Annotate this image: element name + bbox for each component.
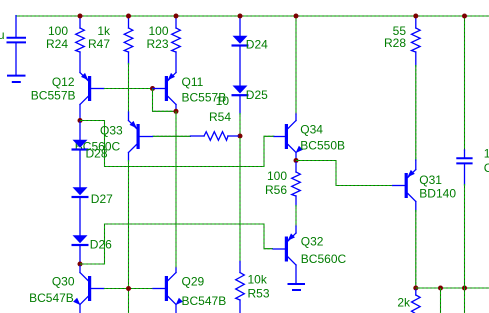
svg-text:D26: D26 <box>90 237 112 251</box>
svg-text:R23: R23 <box>146 37 168 51</box>
diode D28 anode lead <box>79 122 81 140</box>
resistor R28 top lead <box>415 18 417 29</box>
Q33 collector lead <box>128 153 130 162</box>
svg-text:R53: R53 <box>248 287 270 301</box>
transistor Q34 BC550B (NPN) <box>274 121 303 154</box>
svg-text:R28: R28 <box>384 36 406 50</box>
junction top rail rail/C3 <box>462 14 467 19</box>
svg-text:R24: R24 <box>46 37 68 51</box>
transistor Q29 BC547B (NPN) <box>153 273 183 306</box>
svg-text:R56: R56 <box>265 183 287 197</box>
Q29 collector lead <box>175 268 177 273</box>
svg-text:Q29: Q29 <box>182 275 205 289</box>
junction D26 / Q30 collector node <box>78 262 83 267</box>
wire Q33 base to R54 <box>153 135 192 137</box>
svg-text:10k: 10k <box>248 273 268 287</box>
capacitor C3 leads <box>464 150 466 185</box>
junction top rail rail/R23 <box>174 14 179 19</box>
wire D25 to R54 node <box>239 113 241 134</box>
junction bottom rail at x=440 <box>438 286 443 291</box>
Q34 emitter lead <box>295 153 297 159</box>
resistor R24 top lead <box>79 18 81 29</box>
svg-text:Q31: Q31 <box>419 173 442 187</box>
ground below capacitor C <box>7 76 26 82</box>
diode D26 <box>72 235 89 246</box>
wire R47 to Q33 emitter <box>128 63 130 113</box>
svg-text:D25: D25 <box>246 88 268 102</box>
wire top rail to capacitor C3 <box>464 18 466 152</box>
junction top rail rail/R47 <box>126 14 131 19</box>
svg-text:Q11: Q11 <box>182 75 204 89</box>
wire D27 cathode to D26 anode <box>79 198 81 235</box>
svg-text:BC547B: BC547B <box>182 294 227 308</box>
wire down from bottom rail <box>440 288 442 313</box>
wire R28 to Q31 emitter <box>415 65 417 161</box>
resistor R23 bottom lead / Q11 emitter lead <box>175 52 177 73</box>
Q31 emitter lead <box>415 160 417 170</box>
junction top rail rail/Q34 <box>294 14 299 19</box>
wire node to Q31 base <box>296 161 393 186</box>
transistor Q31 BD140 (PNP) <box>393 170 416 202</box>
junction Q11 collector node <box>174 109 179 114</box>
svg-text:Q32: Q32 <box>301 235 324 249</box>
Q11 collector lead <box>175 105 177 111</box>
wire top rail to Q34 collector <box>295 18 297 116</box>
junction D25/R54 node <box>238 134 243 139</box>
svg-text:100: 100 <box>267 169 287 183</box>
Q30 emitter lead to bottom edge <box>79 305 81 313</box>
Q29 emitter lead to bottom edge <box>175 305 177 313</box>
svg-text:BC557B: BC557B <box>31 89 76 103</box>
Q34 collector lead <box>295 114 297 121</box>
wire node to Q32 base <box>80 224 273 264</box>
resistor R47 bottom lead <box>128 52 130 64</box>
svg-text:R47: R47 <box>88 37 110 51</box>
transistor Q33 BC560C (PNP) <box>129 121 153 153</box>
resistor R23 body <box>172 28 181 52</box>
wire bottom right rail <box>416 287 489 289</box>
resistor R47 body <box>124 28 133 52</box>
wire D24 cathode to D25 anode <box>239 47 241 86</box>
resistor R24 body <box>76 28 85 52</box>
transistor Q32 BC560C (PNP) <box>273 233 296 265</box>
diode D24 <box>232 36 249 47</box>
wire top supply rail <box>16 15 489 17</box>
svg-text:C31: C31 <box>484 161 489 175</box>
svg-text:D27: D27 <box>91 192 113 206</box>
svg-text:BD140: BD140 <box>419 187 456 201</box>
transistor Q30 BC547B (NPN) <box>73 273 104 306</box>
ground below Q32 <box>288 284 306 290</box>
svg-text:BC560C: BC560C <box>301 252 347 266</box>
wire Q12 base to node <box>104 88 153 90</box>
diode D26 cathode lead <box>79 246 81 261</box>
junction Q34 emitter / R56 node <box>294 158 299 163</box>
resistor R23 top lead <box>175 18 177 29</box>
resistor R24 bottom lead / Q12 emitter lead <box>79 52 81 73</box>
svg-text:2k: 2k <box>397 296 411 310</box>
junction Q31 collector / R-2k / bottom wire <box>413 286 418 291</box>
wire down from C column <box>464 288 466 313</box>
diode D24 anode lead <box>239 18 241 36</box>
resistor R54 body and leads <box>191 132 239 141</box>
junction Q12 collector / D28 / Q34-base wire <box>78 118 83 123</box>
diode D25 cathode lead <box>239 97 241 115</box>
resistor R47 top lead <box>128 18 130 29</box>
Q32 emitter lead to ground <box>295 265 297 283</box>
junction top rail rail/D24 <box>238 14 243 19</box>
resistor R28 bottom lead <box>415 52 417 66</box>
svg-text:Q12: Q12 <box>52 75 75 89</box>
svg-text:1u: 1u <box>484 146 489 160</box>
wire Q11 collector down to Q29 collector <box>175 111 177 268</box>
Q32 collector lead <box>295 226 297 233</box>
wire node to Q34 base <box>80 121 275 167</box>
svg-text:R54: R54 <box>209 110 231 124</box>
capacitor C (100u) leads <box>15 16 17 75</box>
diode D28 <box>72 140 89 151</box>
svg-text:Q34: Q34 <box>300 122 323 136</box>
transistor Q12 BC557B (PNP) <box>80 73 104 105</box>
Q31 collector lead <box>415 202 417 212</box>
Q30 collector lead <box>79 266 81 273</box>
resistor R53 body and leads <box>236 262 245 313</box>
wire Q12 collector to junction <box>79 105 81 119</box>
svg-text:BC550B: BC550B <box>300 138 345 152</box>
wire R54 node down to R53 <box>239 138 241 263</box>
resistor R56 body and leads <box>292 163 301 207</box>
resistor R28 body <box>412 28 421 52</box>
wire Q33 collector down through base rail to bottom edge <box>128 160 130 313</box>
wire Q30 base to Q29 base <box>104 288 153 290</box>
wire R56 to Q32 collector <box>295 205 297 227</box>
resistor 2k body and lead (clipped at bottom) <box>412 290 421 313</box>
svg-text:100u: 100u <box>0 28 5 42</box>
wire base node to Q11 collector node <box>153 89 177 112</box>
capacitor C (100u) plates <box>7 38 27 43</box>
svg-text:10: 10 <box>216 94 230 108</box>
Q33 emitter lead <box>128 112 130 121</box>
transistor Q11 BC557B (PNP) <box>153 73 176 105</box>
diode D25 <box>232 86 249 97</box>
svg-text:Q30: Q30 <box>52 275 75 289</box>
wire capacitor C3 to bottom rail <box>464 184 466 288</box>
junction top rail rail/R28 <box>413 14 418 19</box>
svg-text:D28: D28 <box>86 147 108 161</box>
capacitor C3 plates <box>456 158 472 163</box>
junction bottom rail / C right column <box>462 286 467 291</box>
junction base rail / Q33 collector wire <box>126 286 131 291</box>
wire Q31 collector to bottom node <box>415 210 417 286</box>
svg-text:D24: D24 <box>246 37 268 51</box>
svg-text:BC547B: BC547B <box>29 291 74 305</box>
junction top rail rail/R24 <box>78 14 83 19</box>
diode D27 <box>72 187 89 198</box>
junction Q12/Q11 bases <box>150 86 155 91</box>
svg-text:Q33: Q33 <box>100 123 123 137</box>
wire D28 cathode to D27 anode <box>79 151 81 188</box>
